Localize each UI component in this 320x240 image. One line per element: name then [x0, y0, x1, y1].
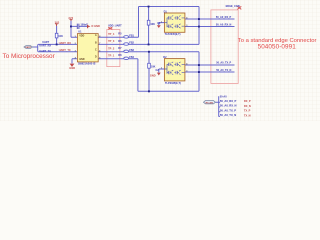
svg-text:50_A0_TX_N: 50_A0_TX_N [220, 113, 236, 117]
svg-text:50_A0_RX_N: 50_A0_RX_N [216, 24, 232, 27]
svg-text:50-A0: 50-A0 [220, 95, 227, 98]
svg-text:50_A0_TX_N: 50_A0_TX_N [216, 69, 231, 72]
svg-text:TLP2345(E,T): TLP2345(E,T) [165, 82, 181, 85]
svg-text:RS-485: RS-485 [206, 101, 214, 104]
svg-text:TX_P: TX_P [244, 109, 251, 113]
svg-text:TP_2: TP_2 [108, 46, 115, 50]
svg-text:GND: GND [69, 66, 75, 70]
svg-text:10K: 10K [151, 65, 156, 68]
svg-text:RX_P: RX_P [244, 99, 251, 103]
svg-text:50_A0_TX_P: 50_A0_TX_P [216, 62, 231, 65]
svg-text:3V3: 3V3 [55, 21, 60, 25]
svg-text:50_A0_TX_P: 50_A0_TX_P [220, 108, 236, 112]
svg-text:UART_TX: UART_TX [39, 50, 51, 53]
svg-text:GND: GND [150, 73, 156, 77]
svg-text:TP_1: TP_1 [108, 53, 115, 57]
svg-text:504050-0991: 504050-0991 [258, 44, 297, 51]
svg-text:TP_4: TP_4 [108, 32, 115, 36]
svg-text:3V3: 3V3 [68, 16, 73, 20]
svg-text:UART: UART [25, 46, 32, 49]
svg-text:FB2: FB2 [129, 42, 134, 45]
svg-text:VDD: VDD [79, 35, 84, 37]
svg-text:UART_RX: UART_RX [39, 44, 51, 47]
svg-text:50_A0_RX_P: 50_A0_RX_P [216, 16, 232, 19]
svg-text:Si8621AB-B-IS: Si8621AB-B-IS [78, 63, 96, 66]
svg-text:GND: GND [79, 59, 84, 61]
svg-text:10K: 10K [150, 23, 155, 26]
svg-text:10K: 10K [58, 35, 63, 38]
svg-text:100nF: 100nF [81, 23, 89, 26]
svg-text:50_A0_RX_P: 50_A0_RX_P [220, 99, 237, 103]
svg-text:FB4: FB4 [129, 56, 134, 59]
svg-text:D GND: D GND [92, 24, 100, 28]
svg-text:UART_RX: UART_RX [59, 41, 72, 45]
svg-text:TLP2345(E,T): TLP2345(E,T) [165, 33, 181, 36]
svg-text:UART_TX: UART_TX [59, 48, 71, 52]
svg-text:EDGE_CON: EDGE_CON [226, 5, 240, 8]
svg-text:FB3: FB3 [129, 49, 134, 52]
svg-text:TP_3: TP_3 [108, 39, 115, 43]
svg-text:50_A0_RX_N: 50_A0_RX_N [220, 104, 237, 108]
svg-text:RX_N: RX_N [244, 104, 251, 108]
svg-text:VDD_UART: VDD_UART [108, 24, 122, 27]
svg-text:TX_N: TX_N [244, 113, 251, 117]
svg-text:To Microprocessor: To Microprocessor [3, 53, 56, 60]
svg-text:FB1: FB1 [129, 35, 134, 38]
